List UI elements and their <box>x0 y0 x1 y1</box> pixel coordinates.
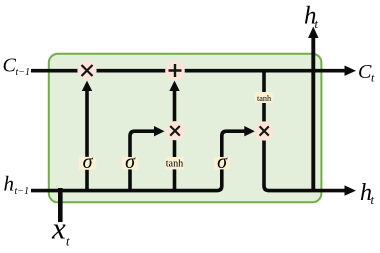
arrowhead into output multiply from sigma3 <box>244 126 255 136</box>
tanh on C branch box <box>255 92 273 103</box>
svg-text:x: x <box>51 211 66 246</box>
svg-text:tanh: tanh <box>166 158 184 169</box>
output multiply circle <box>255 121 274 140</box>
arrowhead into plus <box>169 81 179 91</box>
svg-text:t−1: t−1 <box>15 186 30 197</box>
arrowhead ht right <box>345 185 357 195</box>
wire sigma2 elbow to input multiply <box>130 131 156 190</box>
label ht top <box>304 3 319 32</box>
LSTM cell body box <box>49 54 322 203</box>
svg-text:t: t <box>371 193 375 207</box>
svg-text:t−1: t−1 <box>16 67 31 78</box>
svg-text:σ: σ <box>217 151 228 173</box>
arrowhead into forget multiply <box>82 81 92 91</box>
wire sigma1 vertical to forget multiply <box>85 88 89 191</box>
label Ct right <box>358 61 375 85</box>
wire xt input vertical <box>58 188 63 222</box>
wire output multiply down-then-right to ht <box>264 136 346 191</box>
wire input multiply up to plus <box>173 88 177 125</box>
svg-text:t: t <box>66 235 70 249</box>
svg-text:t: t <box>371 71 375 85</box>
wire C branch down to tanh <box>262 71 266 125</box>
arrowhead ht top <box>308 27 318 39</box>
wire h line from ht-1 with turn up into sigma3 and elbow into output multiply <box>31 131 246 190</box>
forget gate multiply circle <box>77 61 96 80</box>
arrowhead Ct right <box>345 66 357 76</box>
wire C line (Ct-1 to Ct) <box>31 69 346 73</box>
svg-text:t: t <box>315 17 319 31</box>
svg-text:σ: σ <box>125 151 136 173</box>
svg-text:σ: σ <box>83 151 94 173</box>
input multiply circle <box>165 121 184 140</box>
svg-text:h: h <box>4 172 15 196</box>
wire ht branch up (exit top) <box>311 38 315 191</box>
label ht-1 <box>4 172 30 198</box>
wire tanh gate vertical to input multiply <box>173 125 177 191</box>
svg-text:tanh: tanh <box>257 94 271 103</box>
arrowhead into input multiply from sigma2 <box>154 126 165 136</box>
label Ct-1 <box>3 55 31 79</box>
sigma gate 1 box <box>79 151 97 173</box>
add gate plus circle <box>165 61 185 81</box>
tanh gate box <box>165 157 183 169</box>
sigma gate 2 box <box>122 151 138 173</box>
label ht right <box>360 180 375 207</box>
sigma gate 3 box <box>214 151 230 173</box>
label xt <box>51 211 70 249</box>
svg-text:C: C <box>358 61 372 83</box>
svg-text:C: C <box>3 55 17 77</box>
